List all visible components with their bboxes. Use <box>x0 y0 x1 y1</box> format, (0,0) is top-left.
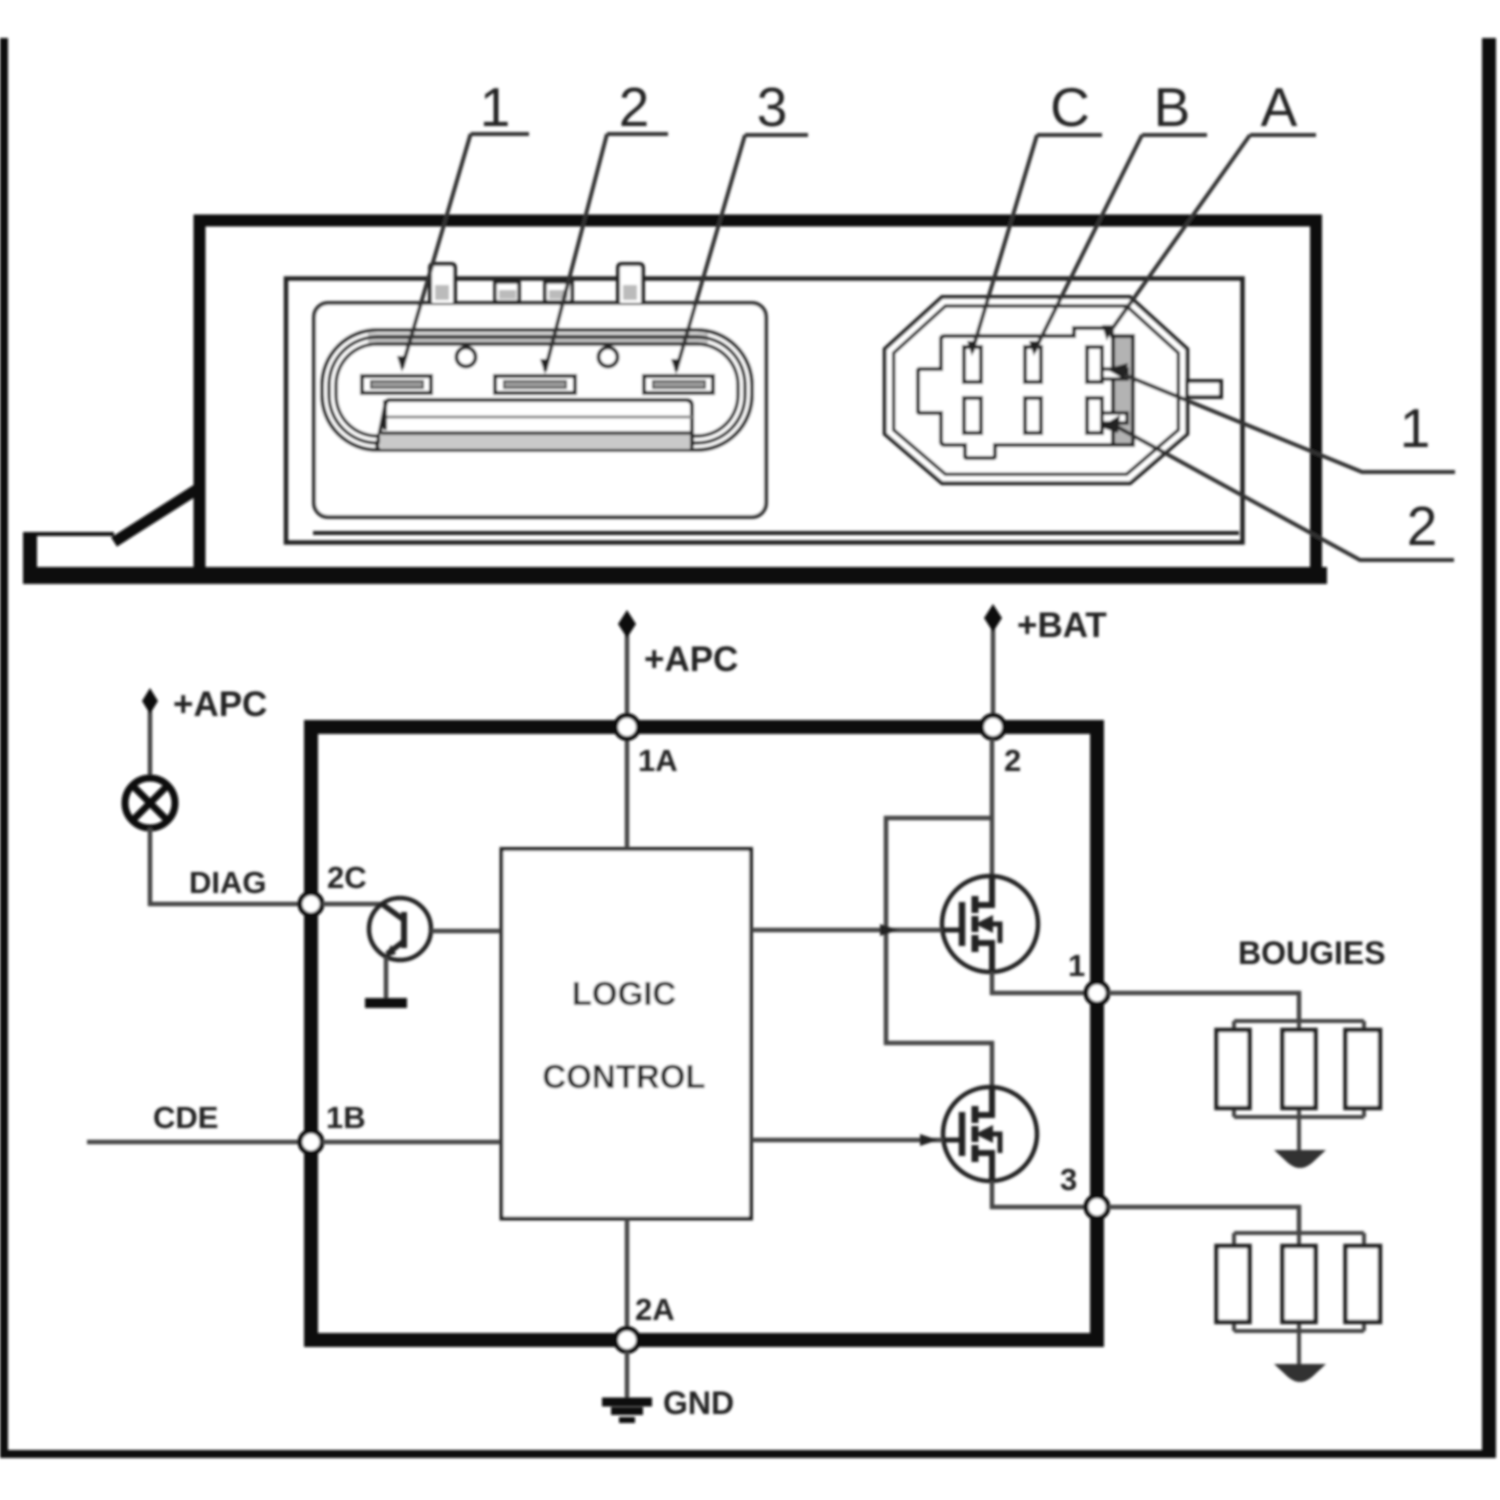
J1 surround rectangle <box>314 303 766 517</box>
svg-text:CONTROL: CONTROL <box>542 1058 705 1095</box>
+APC left terminal arrow <box>142 688 158 714</box>
housing inner rectangle <box>286 279 1243 543</box>
svg-text:C: C <box>1050 76 1090 138</box>
wire lamp to DIAG node <box>150 828 299 904</box>
svg-text:3: 3 <box>1060 1162 1077 1197</box>
logic control block U1 <box>502 849 752 1219</box>
J2 pin A bottom <box>1087 398 1102 433</box>
J1 capsule inner ring <box>336 344 738 436</box>
callout label 3 (top) <box>671 76 808 374</box>
svg-text:2A: 2A <box>635 1292 675 1327</box>
glow plug bank 1 <box>1234 1021 1364 1150</box>
svg-text:1A: 1A <box>638 743 678 778</box>
svg-text:+BAT: +BAT <box>1017 606 1107 645</box>
wire Q1 emitter to ground <box>384 957 389 999</box>
wire pin 3 to glow plug bank 2 <box>1108 1207 1299 1233</box>
ground bar of Q1 <box>365 998 407 1008</box>
wire pin 1 to glow plug bank 1 <box>1108 993 1299 1021</box>
svg-text:2C: 2C <box>327 860 367 895</box>
wire +APC top vertical <box>625 622 630 715</box>
wire CDE into 1B <box>87 1140 299 1145</box>
wire +APC left vertical to lamp <box>148 700 153 779</box>
svg-text:1B: 1B <box>326 1100 366 1135</box>
J2 inner rectangle with notches <box>918 328 1113 458</box>
J2 pin A top stub <box>1102 369 1127 379</box>
svg-text:2: 2 <box>1407 495 1438 557</box>
callout label C <box>967 76 1102 356</box>
diag driver transistor Q1 <box>369 898 431 960</box>
svg-text:CDE: CDE <box>153 1100 218 1135</box>
svg-text:A: A <box>1261 76 1298 138</box>
gate Q3 arrowhead <box>920 1134 938 1146</box>
J2 pin C top <box>964 347 981 382</box>
J2 pin A top <box>1087 347 1102 382</box>
wire gate Q3 from logic <box>751 1138 943 1143</box>
J2 pin B top <box>1025 347 1041 382</box>
svg-text:DIAG: DIAG <box>189 865 267 900</box>
wire Q1 base to logic <box>431 929 501 934</box>
pin 2A circle <box>616 1329 639 1352</box>
wire +BAT vertical <box>991 616 996 715</box>
svg-text:LOGIC: LOGIC <box>572 975 677 1012</box>
svg-text:2: 2 <box>619 76 650 138</box>
J2 octagon inner <box>894 306 1179 474</box>
housing bottom bar <box>23 567 1327 584</box>
pin 1B circle <box>300 1131 322 1153</box>
pin 1A circle <box>616 716 639 739</box>
svg-text:+APC: +APC <box>644 640 738 679</box>
J1 index hole left <box>457 348 476 367</box>
J1 keying square right <box>545 282 572 302</box>
J1 index hole right <box>599 348 618 367</box>
MOSFET Q3 (bottom) <box>943 1087 1037 1181</box>
wire 2C to transistor <box>322 902 382 907</box>
J1 keying square left <box>495 282 519 302</box>
callout label 1 (top) <box>397 76 529 372</box>
wire 1B to logic <box>322 1140 501 1145</box>
J1 keying tab A <box>430 264 455 303</box>
pin 2C circle <box>300 893 322 915</box>
ground arrow bank 2 <box>1274 1364 1326 1382</box>
J2 octagon outer <box>885 297 1188 483</box>
wire 1A to logic box <box>625 739 630 849</box>
J1 capsule grey top band <box>368 333 708 346</box>
svg-text:1: 1 <box>1400 397 1431 459</box>
pin 2 circle <box>982 716 1005 739</box>
J2 grey contact strip <box>1113 336 1133 445</box>
J1 key slot <box>377 400 692 450</box>
callout label 1 (right side) <box>1106 363 1455 472</box>
housing shelf line <box>313 531 1239 535</box>
J2 pin B bottom <box>1025 398 1041 433</box>
J2 pin A bottom stub <box>1102 413 1127 423</box>
pin 3 circle <box>1086 1196 1108 1218</box>
J1 pin slot 2 <box>495 376 575 393</box>
svg-text:2: 2 <box>1004 743 1021 778</box>
J1 pin slot 1 <box>362 376 431 393</box>
callout label 2 (top) <box>540 76 668 374</box>
callout label A <box>1102 76 1316 341</box>
+APC top terminal arrow <box>618 610 636 638</box>
J1 keying tab B <box>618 264 643 303</box>
indicator lamp <box>125 778 175 828</box>
glow plug bank 2 <box>1234 1233 1364 1364</box>
+BAT terminal arrow <box>984 604 1002 632</box>
J1 pin slot 3 <box>644 376 713 393</box>
wire gate Q2 from logic <box>751 928 942 933</box>
svg-text:B: B <box>1154 76 1191 138</box>
ground symbol GND <box>602 1402 652 1420</box>
wire drain bypass to Q3 <box>886 818 992 1087</box>
callout label 2 (right side) <box>1100 415 1454 560</box>
svg-text:1: 1 <box>480 76 511 138</box>
housing outer case <box>200 221 1317 582</box>
J1 capsule middle ring <box>329 337 745 443</box>
J2 right tab <box>1187 381 1221 397</box>
wire source Q2 to pin 1 <box>992 972 1086 993</box>
svg-text:GND: GND <box>663 1385 734 1421</box>
svg-text:3: 3 <box>757 76 788 138</box>
svg-text:1: 1 <box>1068 948 1085 983</box>
ground arrow bank 1 <box>1274 1150 1326 1168</box>
pin 1 circle <box>1086 982 1108 1004</box>
ECU schematic boundary box <box>311 727 1097 1340</box>
wire 2A to ground <box>625 1351 630 1399</box>
mounting foot flange <box>23 488 199 574</box>
svg-text:BOUGIES: BOUGIES <box>1238 935 1386 971</box>
J2 pin C bottom <box>964 398 981 433</box>
J1 capsule outer ring <box>322 330 752 450</box>
svg-text:+APC: +APC <box>173 685 267 724</box>
gate Q2 arrowhead <box>880 924 898 936</box>
callout label B <box>1029 76 1207 356</box>
MOSFET Q2 (top) <box>942 876 1038 972</box>
wire drain feed to Q2 <box>990 739 995 876</box>
wire source Q3 to pin 3 <box>992 1181 1086 1207</box>
wire logic to GND pin 2A <box>625 1218 630 1328</box>
